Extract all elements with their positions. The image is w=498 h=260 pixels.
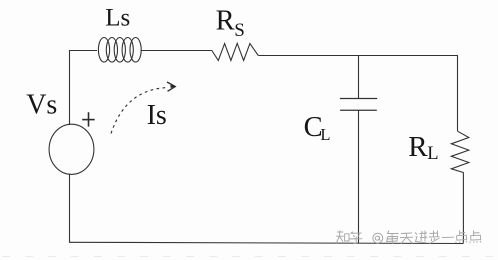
char 每 bbox=[386, 231, 399, 244]
watermark 知乎 @每天进步一点点 bbox=[336, 230, 481, 243]
voltage source Vs bbox=[49, 124, 94, 174]
char 一 bbox=[442, 236, 454, 238]
char 知 bbox=[336, 230, 349, 243]
plus sign bbox=[82, 112, 95, 126]
wire bbox=[358, 110, 360, 243]
wire bbox=[69, 174, 71, 243]
svg-text:Is: Is bbox=[147, 100, 167, 131]
char 乎 bbox=[349, 232, 362, 244]
wire bbox=[141, 50, 212, 52]
wire bbox=[69, 242, 463, 243]
svg-text:S: S bbox=[234, 20, 245, 41]
inductor Ls bbox=[98, 38, 141, 63]
wire bbox=[69, 50, 71, 125]
svg-text:L: L bbox=[427, 144, 438, 164]
resistor RL bbox=[451, 131, 469, 172]
char @ bbox=[373, 233, 383, 243]
capacitor CL bbox=[340, 99, 377, 111]
wire bbox=[457, 56, 459, 132]
resistor Rs bbox=[212, 43, 258, 60]
wire bbox=[358, 56, 360, 99]
svg-text:L: L bbox=[320, 125, 330, 144]
char 点 bbox=[456, 230, 467, 243]
current arrow Is bbox=[111, 88, 168, 134]
svg-text:R: R bbox=[408, 131, 428, 163]
char 步 bbox=[429, 231, 440, 244]
wire bbox=[69, 50, 97, 52]
faint bottom artifact line bbox=[2, 256, 496, 258]
svg-text:R: R bbox=[216, 5, 235, 36]
arrowhead bbox=[167, 82, 175, 91]
svg-text:Vs: Vs bbox=[26, 90, 57, 121]
wire bbox=[258, 55, 458, 57]
char 天 bbox=[400, 233, 413, 244]
char 进 bbox=[415, 231, 428, 243]
char 点 bbox=[470, 230, 481, 243]
wire bbox=[462, 173, 464, 244]
svg-text:Ls: Ls bbox=[105, 5, 130, 32]
